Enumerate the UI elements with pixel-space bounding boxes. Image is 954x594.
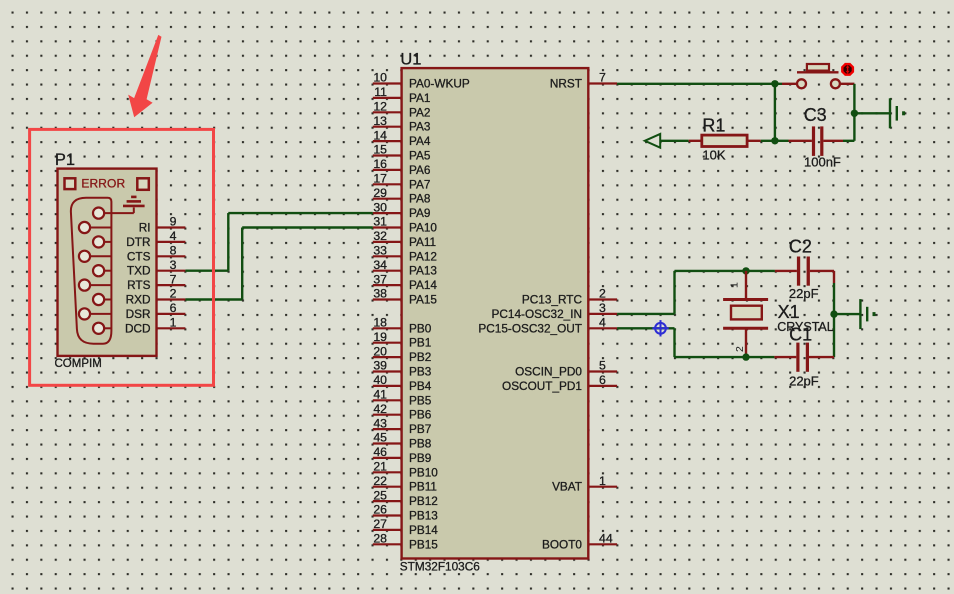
svg-text:19: 19 [373, 330, 387, 344]
DB9 hole wire row 16 [99, 299, 112, 301]
U1 pin PA14 (pin 37) [373, 272, 438, 292]
svg-text:20: 20 [373, 344, 387, 358]
svg-text:26: 26 [373, 503, 387, 517]
DB9 hole wire row 13 [85, 255, 112, 257]
svg-text:14: 14 [373, 128, 387, 142]
svg-text:PC14-OSC32_IN: PC14-OSC32_IN [492, 307, 582, 321]
U1 pin PA0-WKUP (pin 10) [373, 71, 470, 91]
wire branch down to R1/C3 net [774, 84, 776, 141]
DB9 hole circle right-1 [93, 208, 104, 219]
svg-text:PB5: PB5 [409, 393, 432, 407]
svg-text:PB2: PB2 [409, 350, 431, 364]
svg-text:RTS: RTS [127, 278, 151, 292]
P1 pin DSR (pin 6) [126, 301, 186, 321]
svg-text:PA15: PA15 [409, 293, 437, 307]
DB9 hole circle right-5 [93, 323, 104, 334]
connector P1 (COMPIM) body [58, 169, 157, 356]
ground top [890, 98, 904, 128]
svg-text:PB15: PB15 [409, 537, 438, 551]
svg-text:CTS: CTS [127, 249, 151, 263]
svg-text:16: 16 [373, 157, 387, 171]
svg-text:4: 4 [170, 229, 177, 243]
U1 pin PB8 (pin 45) [373, 431, 432, 451]
U1 pin PB12 (pin 25) [373, 488, 438, 508]
svg-text:1: 1 [729, 282, 741, 288]
svg-text:22: 22 [373, 474, 387, 488]
crystal pin2 wire [745, 328, 747, 357]
svg-text:34: 34 [373, 258, 387, 272]
DB9 hole wire row 15 [85, 284, 112, 286]
svg-text:41: 41 [373, 388, 387, 402]
svg-text:2: 2 [734, 346, 746, 352]
DB9 hole circle left-3 [79, 280, 90, 291]
svg-text:COMPIM: COMPIM [55, 358, 102, 370]
svg-text:PB6: PB6 [409, 408, 432, 422]
svg-text:17: 17 [373, 172, 387, 186]
U1 pin PB6 (pin 42) [373, 402, 432, 422]
svg-text:PA10: PA10 [409, 221, 437, 235]
annotation arrow (red) [128, 35, 161, 117]
svg-text:PA14: PA14 [409, 278, 437, 292]
DB9 hole circle right-4 [93, 294, 104, 305]
svg-text:VBAT: VBAT [552, 480, 582, 494]
ground mid [860, 299, 874, 329]
svg-text:32: 32 [373, 229, 387, 243]
svg-text:BOOT0: BOOT0 [542, 537, 582, 551]
svg-text:1: 1 [599, 474, 606, 488]
junction crystal pin1 [742, 267, 749, 274]
U1 pin PB2 (pin 20) [373, 344, 432, 364]
terminal arrow (default input) [645, 134, 660, 148]
U1 pin BOOT0 (pin 44) [542, 532, 617, 552]
svg-text:PB13: PB13 [409, 509, 438, 523]
svg-text:25: 25 [373, 488, 387, 502]
DB9 hole wire row 12 [99, 241, 112, 243]
svg-text:PA8: PA8 [409, 192, 431, 206]
svg-text:13: 13 [373, 114, 387, 128]
svg-text:2: 2 [170, 287, 177, 301]
wire PC14-OSC32_IN to rail [617, 313, 674, 315]
svg-text:21: 21 [373, 460, 387, 474]
wire button to ground corner [853, 84, 855, 141]
svg-text:45: 45 [373, 431, 387, 445]
U1 pin PB11 (pin 22) [373, 474, 437, 494]
DB9 hole circle left-1 [79, 222, 90, 233]
U1 pin PB4 (pin 40) [373, 373, 432, 393]
DB9 hole circle right-2 [93, 236, 104, 247]
junction to ground [851, 110, 858, 117]
svg-text:P1: P1 [55, 151, 75, 169]
U1 pin PA7 (pin 17) [373, 172, 431, 192]
U1 pin PB0 (pin 18) [373, 316, 432, 336]
svg-text:29: 29 [373, 186, 387, 200]
svg-text:PA9: PA9 [409, 206, 430, 220]
svg-text:R1: R1 [702, 115, 725, 135]
ERROR indicator left square [65, 178, 76, 189]
DB9 hole wire row 14 [99, 270, 112, 272]
P1 pin RXD (pin 2) [126, 287, 186, 307]
svg-text:5: 5 [599, 359, 606, 373]
DB9 connector outline [71, 198, 112, 344]
svg-text:DSR: DSR [126, 307, 151, 321]
ERROR indicator right square [137, 178, 149, 190]
svg-text:9: 9 [170, 215, 177, 229]
wire arrow to R1 [660, 140, 689, 142]
svg-text:PB11: PB11 [409, 480, 437, 494]
button right pin stub [840, 83, 855, 85]
U1 pin PC14-OSC32_IN (pin 3) [492, 301, 618, 321]
earth symbol inside P1 [123, 197, 145, 206]
wire vertical down to bottom rail [673, 328, 675, 357]
svg-text:PA4: PA4 [409, 134, 431, 148]
U1 pin OSCIN_PD0 (pin 5) [515, 359, 617, 379]
svg-text:43: 43 [373, 416, 387, 430]
svg-text:ERROR: ERROR [81, 177, 125, 191]
svg-text:6: 6 [599, 373, 606, 387]
svg-text:PB7: PB7 [409, 422, 431, 436]
svg-text:2: 2 [599, 287, 606, 301]
svg-text:C1: C1 [789, 324, 812, 344]
wire right rail [833, 271, 835, 357]
wire to mid ground [834, 313, 860, 315]
U1 pin PA13 (pin 34) [373, 258, 438, 278]
P1 pin RI (pin 9) [139, 215, 186, 235]
U1 pin PB14 (pin 27) [373, 517, 438, 537]
button BUT terminals [797, 79, 806, 88]
U1 pin PA1 (pin 11) [373, 85, 431, 105]
svg-text:40: 40 [373, 373, 387, 387]
svg-text:27: 27 [373, 517, 387, 531]
crystal pin1 wire [745, 271, 747, 300]
node marker (blue) [652, 320, 668, 336]
U1 pin PB13 (pin 26) [373, 503, 438, 523]
P1 pin DTR (pin 4) [126, 229, 185, 249]
U1 pin PC15-OSC32_OUT (pin 4) [478, 316, 617, 336]
U1 pin PC13_RTC (pin 2) [522, 287, 617, 307]
wire RXD to PA10 [185, 228, 372, 300]
svg-text:PA12: PA12 [409, 249, 437, 263]
DB9 hole circle right-3 [93, 265, 104, 276]
button left pin stub [782, 83, 797, 85]
U1 pin PA11 (pin 32) [373, 229, 436, 249]
svg-text:3: 3 [599, 301, 606, 315]
DB9 hole circle left-4 [79, 308, 90, 319]
svg-text:PA11: PA11 [409, 235, 436, 249]
svg-text:RI: RI [139, 221, 151, 235]
svg-text:PB1: PB1 [409, 336, 431, 350]
svg-text:31: 31 [373, 215, 387, 229]
U1 pin PA3 (pin 13) [373, 114, 431, 134]
DB9 hole circle left-2 [79, 251, 90, 262]
capacitor C1 [774, 343, 834, 372]
button cap [807, 64, 829, 71]
svg-text:PB3: PB3 [409, 365, 432, 379]
P1 pin RTS (pin 7) [127, 272, 185, 292]
wire to top ground [854, 112, 890, 114]
svg-text:10: 10 [373, 71, 387, 85]
svg-text:22pF: 22pF [789, 286, 819, 301]
svg-text:OSCIN_PD0: OSCIN_PD0 [515, 365, 582, 379]
U1 pin PA4 (pin 14) [373, 128, 431, 148]
selection rectangle (red) [30, 129, 214, 385]
U1 pin PB7 (pin 43) [373, 416, 432, 436]
svg-text:PC15-OSC32_OUT: PC15-OSC32_OUT [478, 321, 582, 335]
svg-text:PB8: PB8 [409, 437, 432, 451]
svg-text:PB9: PB9 [409, 451, 431, 465]
U1 pin PA15 (pin 38) [373, 287, 438, 307]
svg-text:PA5: PA5 [409, 149, 431, 163]
button actuator octagon [842, 64, 853, 75]
svg-text:28: 28 [373, 532, 387, 546]
DB9 hole wire row 18 [99, 327, 112, 329]
wire R1 to junction [761, 140, 775, 142]
svg-text:PB12: PB12 [409, 494, 438, 508]
wire PC15-OSC32_OUT [617, 327, 674, 329]
svg-text:1: 1 [170, 316, 177, 330]
svg-text:C3: C3 [804, 105, 827, 125]
svg-text:42: 42 [373, 402, 387, 416]
svg-text:TXD: TXD [127, 264, 151, 278]
U1 pin PA6 (pin 16) [373, 157, 431, 177]
svg-text:PA13: PA13 [409, 264, 437, 278]
svg-text:PB10: PB10 [409, 465, 438, 479]
wire NRST to button [617, 83, 782, 85]
op U1 STM32F103C6 body [402, 68, 589, 558]
U1 pin PA9 (pin 30) [373, 200, 431, 220]
svg-text:PA0-WKUP: PA0-WKUP [409, 77, 470, 91]
U1 pin PB3 (pin 39) [373, 359, 432, 379]
svg-text:4: 4 [599, 316, 606, 330]
wire bottom rail [675, 356, 775, 358]
svg-text:DTR: DTR [126, 235, 150, 249]
svg-text:15: 15 [373, 143, 387, 157]
svg-text:44: 44 [599, 532, 613, 546]
svg-text:NRST: NRST [550, 77, 582, 91]
crystal X1 [723, 300, 768, 329]
U1 pin PA12 (pin 33) [373, 244, 437, 264]
svg-text:PB14: PB14 [409, 523, 438, 537]
DB9 hole wire row 17 [85, 313, 112, 315]
P1 pin CTS (pin 8) [127, 244, 186, 264]
wire C3 to corner [843, 140, 854, 142]
svg-text:PB0: PB0 [409, 321, 432, 335]
capacitor C2 [775, 257, 834, 286]
U1 pin VBAT (pin 1) [552, 474, 617, 494]
wire vertical up to top rail [673, 271, 675, 314]
junction right rail to ground [830, 310, 837, 317]
U1 pin NRST (pin 7) [550, 71, 617, 91]
svg-text:8: 8 [170, 244, 177, 258]
svg-text:10K: 10K [702, 148, 725, 163]
svg-text:30: 30 [373, 200, 387, 214]
svg-text:PA7: PA7 [409, 177, 430, 191]
svg-text:12: 12 [373, 100, 387, 114]
U1 pin PB15 (pin 28) [373, 532, 438, 552]
svg-text:3: 3 [170, 258, 177, 272]
svg-text:RXD: RXD [126, 293, 151, 307]
U1 pin PB9 (pin 46) [373, 445, 432, 465]
svg-text:PA3: PA3 [409, 120, 431, 134]
DB9 hole wire row 11 [85, 227, 112, 229]
svg-text:PC13_RTC: PC13_RTC [522, 293, 583, 307]
svg-text:OSCOUT_PD1: OSCOUT_PD1 [502, 379, 582, 393]
U1 pin PB10 (pin 21) [373, 460, 438, 480]
wire top rail [675, 270, 775, 272]
svg-text:100nF: 100nF [804, 155, 841, 170]
U1 pin PA2 (pin 12) [373, 100, 431, 120]
svg-text:37: 37 [373, 272, 387, 286]
U1 pin OSCOUT_PD1 (pin 6) [502, 373, 617, 393]
svg-text:38: 38 [373, 287, 387, 301]
svg-text:22pF: 22pF [789, 373, 819, 388]
svg-text:STM32F103C6: STM32F103C6 [400, 559, 480, 573]
svg-text:11: 11 [374, 85, 387, 99]
svg-text:PA6: PA6 [409, 163, 431, 177]
P1 pin TXD (pin 3) [127, 258, 186, 278]
junction R1/C3 [771, 137, 778, 144]
capacitor C3 [789, 126, 844, 155]
svg-text:33: 33 [373, 244, 387, 258]
U1 pin PA8 (pin 29) [373, 186, 431, 206]
wire TXD to PA9 [185, 213, 372, 271]
svg-text:PA1: PA1 [409, 91, 430, 105]
svg-text:39: 39 [373, 359, 387, 373]
U1 pin PB1 (pin 19) [373, 330, 432, 350]
U1 pin PA5 (pin 15) [373, 143, 431, 163]
svg-text:DCD: DCD [125, 321, 151, 335]
wire junction to C3 [775, 140, 789, 142]
svg-text:7: 7 [599, 71, 606, 85]
svg-text:7: 7 [170, 272, 177, 286]
svg-text:PB4: PB4 [409, 379, 432, 393]
svg-text:C2: C2 [789, 237, 812, 257]
svg-text:6: 6 [170, 301, 177, 315]
DB9 hole 1 wire to earth [99, 212, 134, 214]
junction NRST/R1 branch [771, 80, 778, 87]
svg-text:PA2: PA2 [409, 105, 430, 119]
resistor R1 [689, 135, 761, 146]
svg-text:46: 46 [373, 445, 387, 459]
P1 pin DCD (pin 1) [125, 316, 185, 336]
button base bar [797, 71, 839, 73]
svg-text:U1: U1 [400, 50, 421, 68]
U1 pin PB5 (pin 41) [373, 388, 432, 408]
svg-text:18: 18 [373, 316, 387, 330]
U1 pin PA10 (pin 31) [373, 215, 438, 235]
junction crystal pin2 [742, 353, 749, 360]
